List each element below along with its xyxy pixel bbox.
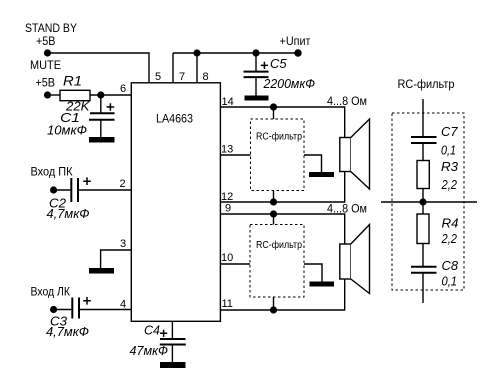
junction pin 12 / RC filter 1: [270, 198, 277, 205]
resistor R1: [60, 90, 90, 100]
wire pin 12 to speaker LS1 bottom: [220, 172, 345, 203]
RC filter block 1: [251, 119, 305, 191]
svg-text:R4: R4: [442, 216, 459, 231]
svg-text:Вход ЛК: Вход ЛК: [31, 287, 71, 299]
pin 5: [155, 71, 161, 83]
wire R4 to C8: [422, 244, 424, 267]
pin 3: [120, 238, 126, 250]
label 4...8 Ом channel 2: [327, 204, 367, 216]
wire junction to R4: [422, 202, 424, 214]
wire pin 9 to speaker LS2 top: [220, 214, 345, 244]
svg-text:10мкФ: 10мкФ: [47, 123, 87, 138]
pin 6: [120, 83, 126, 95]
svg-text:R1: R1: [63, 73, 82, 89]
wire RC filter 1 bottom stub: [273, 191, 275, 203]
pin 11: [222, 298, 233, 310]
svg-text:LA4663: LA4663: [156, 114, 193, 126]
wire detail mid rail: [381, 201, 477, 203]
svg-text:8: 8: [203, 71, 209, 83]
pin 10: [221, 252, 233, 264]
svg-text:+Uпит: +Uпит: [280, 36, 312, 48]
junction C5: [252, 49, 259, 56]
ground C5: [245, 96, 269, 101]
node +Uпит terminal: [294, 49, 301, 56]
wire RC filter 1 top stub: [273, 107, 275, 119]
pin 7 lead: [172, 53, 174, 83]
svg-text:C5: C5: [270, 56, 287, 71]
svg-text:3: 3: [120, 238, 126, 250]
svg-text:R3: R3: [441, 159, 459, 174]
junction pin 14 / RC filter 1: [270, 103, 277, 110]
svg-text:RC-фильтр: RC-фильтр: [398, 79, 455, 91]
pin 8 lead: [196, 53, 198, 83]
label RC-фильтр detail: [398, 79, 455, 91]
svg-text:4: 4: [120, 299, 126, 311]
wire RC filter 2 to ground: [304, 264, 322, 282]
resistor R4: [417, 214, 429, 244]
node Вход ЛК terminal: [50, 306, 57, 313]
svg-text:2200мкФ: 2200мкФ: [263, 76, 315, 91]
node Вход ЛК label: [31, 287, 71, 299]
wire RC filter 2 bottom stub: [273, 297, 275, 310]
svg-text:C8: C8: [442, 258, 459, 273]
junction pin 11 / RC filter 2: [270, 306, 277, 313]
svg-text:+5В: +5В: [36, 36, 56, 48]
wire pin 10 to RC filter 2: [220, 263, 250, 265]
junction pin 9 / RC filter 2: [270, 210, 277, 217]
svg-text:2: 2: [120, 178, 126, 190]
svg-text:4...8 Ом: 4...8 Ом: [327, 96, 367, 108]
resistor R3: [417, 161, 429, 189]
node STAND BY label: [25, 23, 77, 48]
node Вход ПК label: [31, 167, 73, 179]
svg-text:13: 13: [221, 144, 233, 156]
wire +Uпит supply to pins 7,8: [173, 52, 298, 54]
junction R1/C1: [97, 91, 104, 98]
pin 12: [221, 191, 233, 203]
capacitor C3: [72, 297, 90, 319]
svg-text:6: 6: [120, 83, 126, 95]
wire pin 14 to speaker LS1 top: [220, 107, 345, 138]
wire STAND BY to pin 5: [48, 53, 150, 83]
ground RC filter 1: [309, 172, 334, 177]
svg-text:5: 5: [155, 71, 161, 83]
svg-text:MUTE: MUTE: [30, 60, 61, 72]
capacitor C5: [244, 53, 269, 96]
svg-text:11: 11: [222, 298, 233, 310]
svg-text:2,2: 2,2: [441, 231, 458, 246]
ground pin 3: [89, 268, 114, 274]
wire detail top stub: [422, 99, 424, 137]
node MUTE label: [30, 60, 61, 90]
pin 14: [222, 96, 234, 108]
wire R1 to pin 6: [90, 94, 131, 96]
svg-text:4,7мкФ: 4,7мкФ: [46, 324, 89, 339]
speaker LS1: [340, 119, 370, 189]
pin 9: [225, 203, 231, 215]
svg-text:Вход ПК: Вход ПК: [31, 167, 73, 179]
wire input to C2: [54, 189, 71, 191]
node MUTE terminal: [44, 91, 51, 98]
svg-text:C4: C4: [144, 323, 160, 338]
RC filter detail box: [392, 113, 464, 290]
capacitor C2: [71, 177, 90, 202]
svg-text:14: 14: [222, 96, 234, 108]
svg-text:10: 10: [221, 252, 233, 264]
svg-text:0,1: 0,1: [441, 143, 456, 158]
RC filter block 2: [250, 225, 304, 298]
ground C1: [89, 137, 115, 143]
capacitor C4: [160, 321, 186, 362]
pin 4: [120, 299, 126, 311]
capacitor C7: [411, 137, 437, 161]
op-amp U1 LA4663 body: [131, 83, 220, 321]
svg-text:12: 12: [221, 191, 233, 203]
wire pin 11 to speaker LS2 bottom: [220, 279, 345, 310]
svg-text:4,7мкФ: 4,7мкФ: [47, 206, 90, 221]
svg-text:2,2: 2,2: [441, 177, 458, 192]
svg-text:C7: C7: [441, 124, 458, 139]
ground C4: [160, 362, 186, 368]
wire RC filter 1 to ground: [304, 155, 322, 172]
wire input to C3: [54, 309, 72, 311]
svg-text:RC-фильтр: RC-фильтр: [256, 131, 302, 143]
pin 2: [120, 178, 126, 190]
wire MUTE to R1: [48, 94, 61, 96]
svg-text:+5В: +5В: [36, 78, 56, 90]
capacitor C1: [89, 95, 115, 137]
svg-text:RC-фильтр: RC-фильтр: [256, 239, 302, 251]
pin 13: [221, 144, 233, 156]
node STAND BY terminal: [44, 49, 51, 56]
label 4...8 Ом channel 1: [327, 96, 367, 108]
svg-text:4...8 Ом: 4...8 Ом: [327, 204, 367, 216]
junction detail mid: [419, 198, 426, 205]
wire RC filter 2 top stub: [273, 214, 275, 225]
ground RC filter 2: [310, 282, 335, 287]
wire pin 3 to ground: [101, 250, 131, 268]
node Вход ПК terminal: [50, 186, 57, 193]
svg-text:9: 9: [225, 203, 231, 215]
wire C3 to pin 4: [80, 309, 131, 311]
svg-text:STAND BY: STAND BY: [25, 23, 77, 35]
wire R3 to junction: [422, 189, 424, 203]
svg-text:7: 7: [179, 71, 185, 83]
svg-text:0,1: 0,1: [442, 274, 458, 289]
wire pin 13 to RC filter 1: [220, 154, 251, 156]
junction pin 8: [193, 49, 200, 56]
wire C2 to pin 2: [79, 189, 131, 191]
speaker LS2: [340, 225, 370, 294]
capacitor C8: [411, 267, 437, 303]
svg-text:47мкФ: 47мкФ: [130, 343, 169, 358]
